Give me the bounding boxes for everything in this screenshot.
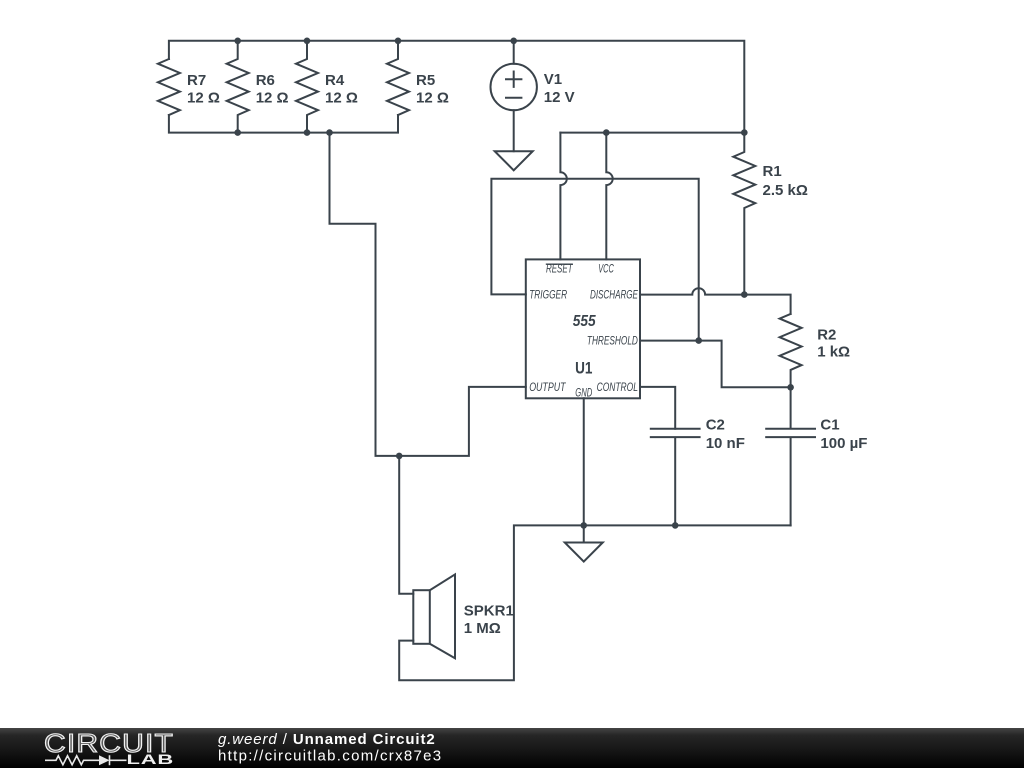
svg-text:1 kΩ: 1 kΩ [817,344,850,361]
ground below U1 [565,543,603,562]
wire second rail [560,132,744,134]
resistor R7 [158,59,180,115]
svg-text:2.5 kΩ: 2.5 kΩ [763,182,808,199]
capacitor C2 [651,429,700,526]
svg-text:12 Ω: 12 Ω [416,90,449,107]
wire top rail [169,41,744,133]
wire VCC vertical with hop [606,133,612,260]
svg-text:12 Ω: 12 Ω [325,90,358,107]
wire bottom rail of resistor bank [169,115,398,133]
svg-text:C1: C1 [820,417,839,434]
capacitor C1 [766,387,815,525]
wire ground rail [399,525,790,680]
svg-text:R2: R2 [817,327,836,344]
speaker SPKR1 [413,590,430,644]
op-amp U1 555 box [526,259,640,398]
resistor R5 [387,41,409,115]
wire to speaker plus [399,456,413,594]
U1 pin labels [529,263,638,399]
wire discharge with hop [640,288,791,314]
svg-text:555: 555 [573,313,597,330]
svg-text:U1: U1 [575,359,592,378]
svg-text:CONTROL: CONTROL [597,382,638,394]
svg-text:VCC: VCC [598,263,614,275]
svg-text:LAB: LAB [127,751,175,767]
svg-text:C2: C2 [706,417,725,434]
svg-text:10 nF: 10 nF [706,435,745,452]
svg-text:1 MΩ: 1 MΩ [464,620,501,637]
svg-text:DISCHARGE: DISCHARGE [590,289,638,301]
wire threshold [640,341,791,388]
svg-text:R6: R6 [256,72,275,89]
svg-text:g.weerd / Unnamed Circuit2: g.weerd / Unnamed Circuit2 [218,731,436,748]
svg-text:R1: R1 [763,163,782,180]
wire control [640,387,675,429]
svg-text:100 µF: 100 µF [820,435,867,452]
resistor R2 [780,314,802,387]
footer title text [218,731,442,765]
svg-text:12 V: 12 V [544,89,575,106]
resistor R6 [227,41,249,133]
footer bar [0,728,1024,768]
svg-text:SPKR1: SPKR1 [464,603,514,620]
svg-text:http://circuitlab.com/crx87e3: http://circuitlab.com/crx87e3 [218,748,442,765]
svg-text:R5: R5 [416,72,435,89]
wire trigger-threshold net [491,179,698,341]
svg-text:OUTPUT: OUTPUT [529,382,566,394]
svg-text:V1: V1 [544,71,562,88]
resistor R1 [733,133,755,295]
svg-text:R4: R4 [325,72,345,89]
CircuitLab logo [44,728,174,767]
ground below V1 [495,151,533,170]
svg-text:12 Ω: 12 Ω [187,90,220,107]
wire output net [330,133,526,456]
voltage source V1 [513,41,515,64]
svg-text:RESET: RESET [546,264,573,276]
svg-text:R7: R7 [187,72,206,89]
svg-text:12 Ω: 12 Ω [256,90,289,107]
logo resistor+diode squiggle [45,755,127,765]
svg-text:GND: GND [575,387,592,399]
resistor R4 [296,41,318,133]
svg-text:THRESHOLD: THRESHOLD [587,336,638,348]
wire RESET vertical with hop [560,133,566,260]
wire gnd pin stem [583,398,585,542]
svg-text:TRIGGER: TRIGGER [529,289,567,301]
